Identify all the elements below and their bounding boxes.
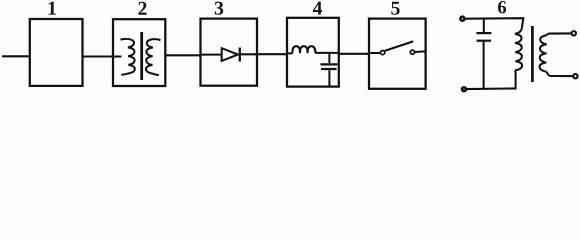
block 3 box <box>201 19 258 86</box>
label 5 <box>391 2 399 15</box>
transformer T2 secondary winding (circuit 6) <box>540 34 550 76</box>
block 4 box <box>287 18 339 87</box>
capacitor C2 top plate <box>476 32 491 34</box>
wire from switch right contact <box>415 50 425 53</box>
wire bottom (circuit 6) <box>467 87 517 90</box>
wire to switch left contact <box>369 52 380 54</box>
terminal top-left (circuit 6) <box>460 17 464 21</box>
capacitor C2 bottom plate <box>477 40 491 42</box>
capacitor C2 top lead <box>483 19 485 33</box>
transformer T1 primary winding (block 2) <box>121 39 135 75</box>
wire from diode cathode <box>241 53 257 55</box>
transformer T2 core (circuit 6) <box>531 26 534 82</box>
label 4 <box>313 2 322 15</box>
diode D1 cathode bar <box>239 48 241 62</box>
terminal bottom-left (circuit 6) <box>462 87 466 91</box>
capacitor C1 top plate <box>321 63 338 65</box>
terminal top-right (circuit 6) <box>572 31 576 35</box>
label 3 <box>215 2 223 15</box>
block 5 box <box>369 19 426 89</box>
wire block3 to block4 <box>257 53 287 55</box>
capacitor C1 bottom plate <box>321 68 337 70</box>
transformer T1 core (block 2) <box>140 32 143 80</box>
label 1 <box>49 2 56 15</box>
switch S1 right contact <box>410 50 414 54</box>
wire top (circuit 6) <box>466 18 524 27</box>
wire stub into block 2 <box>113 56 122 58</box>
block 1 box <box>30 19 83 86</box>
label 2 <box>138 2 146 15</box>
block 2 box <box>113 19 165 86</box>
capacitor C2 bottom lead <box>483 42 485 89</box>
capacitor C1 top lead <box>328 53 330 63</box>
transformer T2 primary bottom lead <box>515 73 517 88</box>
label 6 <box>498 1 506 13</box>
switch S1 lever <box>385 41 414 51</box>
terminal bottom-right (circuit 6) <box>573 74 577 78</box>
wire into inductor <box>287 52 292 54</box>
wire secondary bottom to terminal <box>549 75 572 77</box>
wire block1 to block2 <box>82 55 113 57</box>
switch S1 left contact <box>381 51 385 55</box>
wire to diode anode <box>201 54 223 56</box>
wire from inductor to box edge <box>315 52 338 54</box>
wire input <box>2 55 30 57</box>
diode D1 triangle <box>222 48 238 61</box>
wire secondary top to terminal <box>549 32 571 34</box>
transformer T2 primary winding (circuit 6) <box>515 27 522 73</box>
wire block4 to block5 <box>338 53 369 55</box>
wire block2 to block3 <box>165 54 200 56</box>
capacitor C1 bottom lead <box>328 70 330 87</box>
transformer T1 secondary winding (block 2) <box>146 39 161 75</box>
inductor L1 (block 4) <box>292 46 315 53</box>
